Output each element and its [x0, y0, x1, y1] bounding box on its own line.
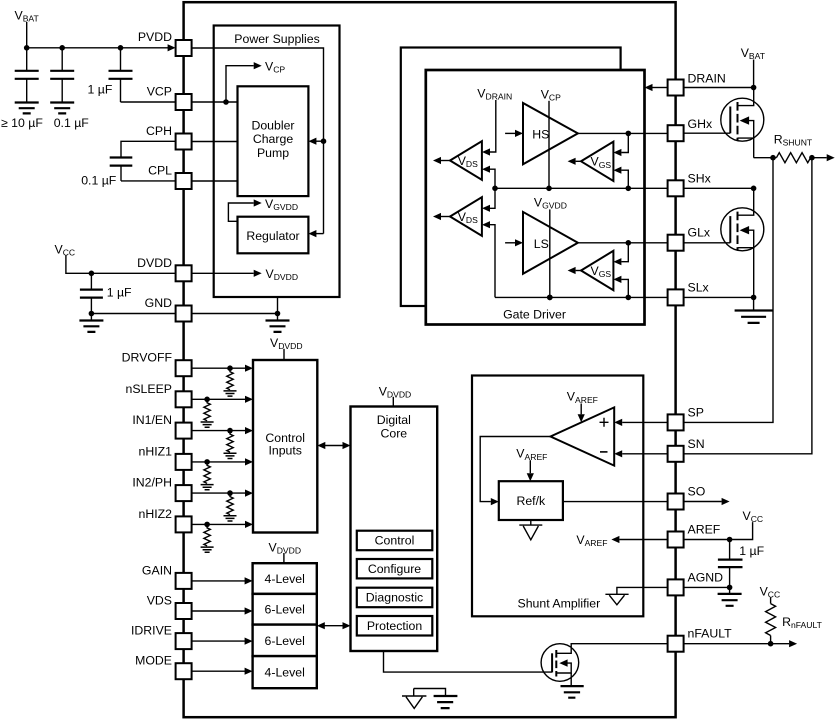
pin GND: [176, 306, 192, 322]
svg-text:GLx: GLx: [688, 226, 711, 240]
pin SO: [668, 494, 684, 510]
arrow output VGS2: [576, 270, 581, 272]
resistor nSLEEP pulldown: [204, 399, 210, 421]
wire digital core to fault gate: [384, 651, 553, 672]
node DRVOFF pulldown: [227, 365, 233, 371]
svg-text:GHx: GHx: [688, 117, 713, 131]
node VBAT-C1: [24, 45, 30, 51]
pin AGND: [668, 579, 684, 595]
regulator block: [238, 217, 309, 254]
pin CPL: [176, 173, 192, 189]
Q1 channel: [737, 102, 739, 141]
pin AREF: [668, 532, 684, 548]
resistor IN1 pulldown: [227, 431, 233, 453]
resistor nHIZ2 pulldown: [204, 524, 210, 546]
svg-text:PVDD: PVDD: [138, 30, 172, 44]
node VCC-C5: [89, 271, 95, 277]
wire IN2/PH to control inputs: [192, 492, 247, 494]
svg-text:Control: Control: [375, 534, 415, 548]
capacitor C6 1uF: [729, 540, 731, 560]
wire DVDD internal arrow: [192, 272, 254, 274]
svg-text:Ref/k: Ref/k: [516, 494, 546, 508]
pin GLx: [668, 235, 684, 251]
node VCP-SHx: [546, 186, 552, 192]
arrow output VDS1: [441, 160, 450, 162]
arrow output VGS1: [576, 160, 581, 162]
node SHx-fets: [751, 186, 757, 192]
capacitor C2 0.1uF: [61, 48, 63, 71]
pin nFAULT: [668, 636, 684, 652]
svg-text:VBAT: VBAT: [15, 9, 40, 24]
pin SLx: [668, 289, 684, 305]
pin DRAIN: [668, 80, 684, 96]
Q2 drain stub: [738, 188, 754, 215]
svg-text:nHIZ1: nHIZ1: [139, 444, 173, 458]
wire CPH pin to C4: [121, 141, 176, 157]
wire VDVDD tick levels: [283, 553, 285, 563]
wire AGND internal: [617, 587, 668, 594]
VCP tap arrow: [226, 66, 254, 102]
wire IDRIVE to 6-level: [192, 640, 247, 642]
svg-text:CPH: CPH: [146, 124, 172, 138]
ground DGND triangle: [402, 689, 426, 709]
Q3 body arrow: [559, 659, 567, 666]
resistor IN2 pulldown: [227, 493, 233, 514]
svg-text:AREF: AREF: [688, 523, 721, 537]
Q1 body arrow: [740, 116, 750, 124]
ground IN1 pulldown: [224, 453, 237, 458]
svg-text:SP: SP: [688, 405, 704, 419]
wire AREF to VCC: [684, 522, 753, 539]
node GND: [275, 311, 281, 317]
wire SLx to VDS2 lower input: [490, 225, 495, 298]
resistor nHIZ1 pulldown: [204, 462, 210, 484]
ground C1: [15, 103, 39, 114]
svg-text:VDS: VDS: [147, 594, 172, 608]
svg-text:SLx: SLx: [688, 280, 710, 294]
ground DGND bars: [434, 696, 458, 708]
svg-text:nHIZ2: nHIZ2: [139, 507, 173, 521]
node SLx-source: [751, 295, 757, 301]
wire SHx external: [684, 187, 754, 189]
wire AGND external: [684, 586, 730, 588]
wire SHx to VDS1 lower input: [490, 169, 495, 188]
wire SP to opamp: [622, 421, 667, 423]
wire nHIZ1 to control inputs: [192, 461, 247, 463]
Q1 gate bar: [729, 107, 731, 134]
wire SN to opamp: [622, 453, 667, 455]
svg-text:SO: SO: [688, 485, 706, 499]
ground refk: [519, 520, 542, 540]
ground Q3: [561, 686, 584, 698]
pin IN2/PH: [176, 485, 192, 501]
wire nFAULT external: [684, 643, 790, 645]
ground DGND tie bar: [414, 689, 446, 697]
wire C4 to CPL pin: [121, 180, 176, 182]
shunt amplifier box: [472, 376, 643, 617]
svg-text:Doubler: Doubler: [251, 118, 294, 132]
node shunt left: [770, 155, 776, 161]
svg-text:Gate Driver: Gate Driver: [503, 308, 566, 322]
svg-text:6-Level: 6-Level: [265, 603, 305, 617]
wire RnFAULT to node: [770, 636, 772, 644]
node nHIZ2 pulldown: [204, 522, 210, 528]
pin GAIN: [176, 573, 192, 589]
node nHIZ1 pulldown: [204, 459, 210, 465]
svg-text:GAIN: GAIN: [142, 563, 172, 577]
wire SP sense: [684, 158, 773, 423]
svg-text:4-Level: 4-Level: [265, 572, 305, 586]
comparator VDS2: [450, 197, 482, 236]
ground at GND left: [90, 314, 92, 321]
Q3 channel: [555, 650, 557, 677]
svg-text:0.1 µF: 0.1 µF: [81, 173, 117, 187]
wire IN1/EN to control inputs: [192, 430, 247, 432]
buffer LS: [523, 212, 578, 274]
node shunt right: [809, 155, 815, 161]
wire VDS to 6-level: [192, 610, 247, 612]
svg-text:6-Level: 6-Level: [265, 634, 305, 648]
device outline U1: [184, 2, 676, 717]
wire VCP through HS to SHx: [548, 101, 550, 189]
wire DRVOFF to control inputs: [192, 367, 247, 369]
pin MODE: [176, 663, 192, 679]
svg-text:RSHUNT: RSHUNT: [774, 133, 813, 148]
wire DRAIN external: [684, 87, 754, 89]
ground GND internal: [277, 314, 279, 321]
wire SO from refk: [563, 501, 668, 503]
capacitor C5 1uF: [90, 273, 92, 289]
pin nHIZ1: [176, 454, 192, 470]
configure sub-block: [357, 559, 433, 578]
node nSLEEP pulldown: [204, 397, 210, 403]
svg-text:CPL: CPL: [148, 164, 172, 178]
arrow SO output: [684, 501, 722, 503]
wire nSLEEP to control inputs: [192, 398, 247, 400]
svg-text:Regulator: Regulator: [246, 229, 299, 243]
arrow input HS: [505, 132, 515, 134]
6-level block VDS: [253, 594, 317, 625]
Q1 gate wire: [684, 132, 731, 134]
svg-text:VCP: VCP: [147, 85, 172, 99]
pin IDRIVE: [176, 633, 192, 649]
svg-text:Diagnostic: Diagnostic: [366, 591, 423, 605]
node SLx-VGVDD: [547, 295, 553, 301]
svg-text:0.1 µF: 0.1 µF: [54, 116, 90, 130]
node VBAT-C2: [59, 45, 65, 51]
ground nSLEEP pulldown: [201, 422, 214, 427]
resistor RnFAULT: [766, 604, 776, 636]
wire SLx to VGS2 lower input: [621, 279, 628, 297]
wire GHx internal: [578, 132, 668, 134]
svg-text:Pump: Pump: [257, 146, 289, 160]
node nFAULT pullup: [768, 641, 774, 647]
node VBAT-drain: [751, 85, 757, 91]
Q3 drain stub to nFAULT: [556, 644, 667, 654]
Q2 channel: [737, 212, 739, 251]
arrow into regulator right: [314, 233, 323, 235]
wire GAIN to 4-level: [192, 580, 247, 582]
wire VBAT stub right: [753, 60, 755, 88]
Q2 source stub: [738, 230, 754, 248]
gate driver shadow box: [401, 48, 621, 307]
digital core box: [351, 407, 438, 652]
resistor RSHUNT: [776, 153, 810, 163]
pin DVDD: [176, 265, 192, 281]
svg-text:DRAIN: DRAIN: [688, 72, 726, 86]
op-amp plus: [600, 418, 609, 427]
svg-text:VCC: VCC: [743, 509, 764, 524]
node IN1 pulldown: [227, 428, 233, 434]
wire opamp output to Ref/k: [480, 437, 550, 502]
arrow output VDS2: [441, 216, 450, 218]
node GLx-VGS2: [626, 240, 632, 246]
wire VDRAIN to VDS1: [490, 100, 496, 152]
4-level block GAIN: [253, 563, 317, 594]
transistor Q2 low-side: [721, 208, 764, 251]
svg-text:Shunt Amplifier: Shunt Amplifier: [518, 597, 601, 611]
svg-text:Inputs: Inputs: [268, 443, 302, 457]
svg-text:DRVOFF: DRVOFF: [122, 351, 173, 365]
pin SN: [668, 446, 684, 462]
Q1 source stub: [738, 121, 754, 139]
buffer HS: [523, 103, 578, 164]
Q2 body arrow: [740, 226, 750, 234]
comparator VGS1: [581, 142, 613, 181]
wire nHIZ2 to control inputs: [192, 523, 247, 525]
arrow into doubler right: [314, 140, 323, 142]
wire shunt node: [754, 157, 777, 159]
wire VCP internal: [192, 101, 238, 103]
arrow into PVDD: [168, 44, 176, 51]
protection sub-block: [357, 616, 433, 636]
arrow shunt output: [810, 157, 826, 159]
svg-text:GND: GND: [145, 296, 172, 310]
comparator VDS1: [450, 141, 482, 180]
ground DRVOFF pulldown: [224, 391, 237, 396]
node GHx-VGS1: [626, 131, 632, 137]
doubler charge pump block: [238, 86, 309, 196]
node SHx-VGS1: [626, 186, 632, 192]
arrow DRAIN into gate driver: [653, 87, 668, 89]
wire VCC to RnFAULT: [770, 598, 772, 604]
control sub-block: [357, 531, 433, 551]
svg-text:SHx: SHx: [688, 171, 712, 185]
comparator VGS2: [581, 251, 613, 290]
svg-text:1 µF: 1 µF: [107, 286, 132, 300]
wire AREF to VAREF out: [619, 539, 667, 541]
svg-text:VCC: VCC: [55, 243, 76, 258]
wire VBAT to PVDD: [27, 47, 169, 49]
control inputs box: [253, 360, 317, 533]
wire C3 to VCP pin: [121, 101, 176, 103]
node C5-GND: [89, 311, 95, 317]
svg-text:VBAT: VBAT: [741, 46, 766, 61]
Q3 source to ground: [570, 673, 572, 686]
wire GND internal: [192, 313, 278, 315]
pin GHx: [668, 125, 684, 141]
svg-text:nFAULT: nFAULT: [688, 627, 733, 641]
wire SLx internal: [495, 296, 668, 298]
svg-text:HS: HS: [532, 128, 549, 142]
arrow VAREF into refk: [529, 460, 531, 473]
pin SP: [668, 414, 684, 430]
wire CPL internal: [192, 180, 238, 182]
wire VGVDD through LS to SLx: [549, 209, 551, 297]
svg-text:IN2/PH: IN2/PH: [132, 476, 172, 490]
pin VDS: [176, 603, 192, 619]
svg-text:Protection: Protection: [367, 619, 423, 633]
svg-text:1 µF: 1 µF: [739, 544, 764, 558]
Q1 drain stub: [738, 88, 754, 106]
svg-text:Configure: Configure: [368, 562, 421, 576]
wire VCC to DVDD: [66, 256, 176, 274]
wire VBAT stub: [26, 22, 28, 48]
capacitor C4 0.1uF: [110, 158, 133, 166]
node VCP branch: [223, 99, 229, 105]
pin PVDD: [176, 40, 192, 56]
4-level block MODE: [253, 656, 317, 688]
ground power stage: [753, 297, 755, 310]
arrow input LS: [505, 242, 515, 244]
svg-text:Charge: Charge: [253, 132, 293, 146]
node SHx-VDS: [492, 186, 498, 192]
arrow VAREF into opamp: [580, 404, 582, 415]
svg-text:IN1/EN: IN1/EN: [132, 413, 172, 427]
node VBAT-C3: [118, 45, 124, 51]
diagnostic sub-block: [357, 588, 433, 608]
svg-text:≥ 10 µF: ≥ 10 µF: [1, 116, 43, 130]
pin nSLEEP: [176, 391, 192, 407]
transistor Q1 high-side: [721, 98, 764, 141]
capacitor C3 1uF: [120, 48, 122, 71]
node SLx-VGS2: [626, 295, 632, 301]
wire VDVDD tick control inputs: [283, 349, 285, 360]
ground C2: [50, 103, 74, 114]
wire GHx to VGS1 upper input: [621, 133, 628, 152]
svg-text:1 µF: 1 µF: [88, 83, 113, 97]
wire GLx internal: [578, 242, 668, 244]
pin VCP: [176, 94, 192, 110]
ground IN2 pulldown: [224, 516, 237, 521]
pin DRVOFF: [176, 360, 192, 376]
svg-text:nSLEEP: nSLEEP: [126, 382, 173, 396]
svg-text:DVDD: DVDD: [137, 256, 172, 270]
ground nHIZ2 pulldown: [201, 547, 214, 552]
ground nHIZ1 pulldown: [201, 485, 214, 490]
wire C5 to GND pin: [91, 313, 175, 315]
VGVDD loop regulator: [228, 203, 253, 221]
wire SHx to VDS2 upper input: [490, 188, 495, 208]
gate driver box: [426, 70, 645, 325]
svg-text:Power Supplies: Power Supplies: [234, 32, 319, 46]
capacitor C1 10uF: [26, 48, 28, 71]
op-amp U2: [551, 407, 615, 465]
svg-text:Core: Core: [380, 427, 407, 441]
bidirectional arrow control inputs to digital core: [323, 445, 344, 447]
wire SHx internal: [495, 187, 668, 189]
wire GLx to VGS2 upper input: [621, 243, 628, 262]
Q2 source down to SLx: [753, 248, 755, 298]
wire SHx to VGS1 lower input: [621, 170, 628, 188]
svg-text:Digital: Digital: [377, 413, 411, 427]
pin CPH: [176, 134, 192, 150]
svg-text:MODE: MODE: [135, 654, 172, 668]
Q3 source stub: [556, 663, 571, 673]
Q3 gate bar: [551, 653, 553, 672]
wire PVDD internal: [192, 48, 324, 234]
svg-text:RnFAULT: RnFAULT: [782, 615, 823, 630]
svg-text:4-Level: 4-Level: [265, 666, 305, 680]
node AREF cap: [727, 537, 733, 543]
svg-text:SN: SN: [688, 437, 705, 451]
transistor Q3 open-drain: [541, 644, 579, 682]
op-amp minus: [600, 451, 608, 453]
Q1 source down to shunt: [753, 138, 755, 158]
power supplies box: [214, 26, 340, 298]
wire PS box to GND node: [277, 297, 279, 314]
wire MODE to 4-level: [192, 670, 247, 672]
svg-text:LS: LS: [534, 237, 549, 251]
block Ref/k: [499, 481, 563, 520]
node PVDD branch: [321, 138, 327, 144]
pin IN1/EN: [176, 423, 192, 439]
node AGND cap: [727, 585, 733, 591]
resistor DRVOFF pulldown: [227, 368, 233, 390]
wire SLx external: [684, 296, 754, 298]
pin SHx: [668, 180, 684, 196]
pin nHIZ2: [176, 516, 192, 532]
Q2 gate bar: [729, 216, 731, 243]
Q2 gate wire: [684, 242, 731, 244]
svg-text:IDRIVE: IDRIVE: [131, 624, 172, 638]
6-level block IDRIVE: [253, 625, 317, 657]
wire SN sense: [684, 158, 812, 454]
svg-text:VCC: VCC: [760, 585, 781, 600]
bidirectional arrow levels to digital core: [323, 625, 345, 627]
ground AGND: [729, 587, 731, 593]
node IN2 pulldown: [227, 490, 233, 496]
wire VDVDD tick digital core: [392, 397, 394, 407]
svg-text:AGND: AGND: [688, 570, 724, 584]
node VGVDD-SLx: [547, 295, 553, 301]
wire CPH internal: [192, 141, 238, 143]
ground AGND triangle: [605, 594, 628, 605]
